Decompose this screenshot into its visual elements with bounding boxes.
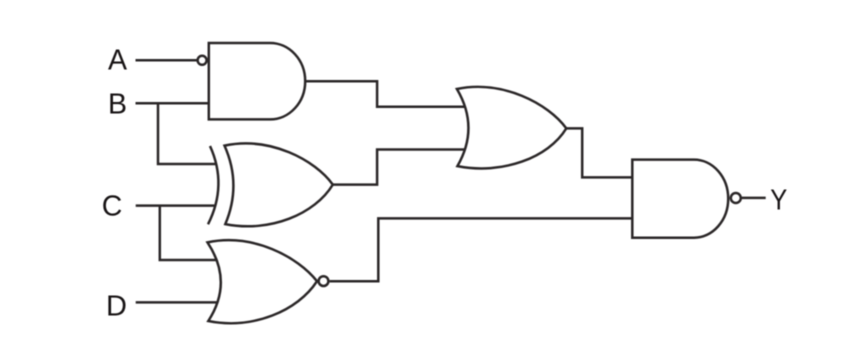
- wire U1 output to OR U4: [305, 81, 467, 107]
- NAND gate U5: [632, 160, 728, 238]
- svg-text:D: D: [106, 291, 127, 323]
- svg-text:B: B: [108, 89, 127, 121]
- XOR U2 body: [225, 143, 333, 226]
- XOR U2 input arc: [208, 146, 218, 224]
- wire C branch to NOR U3: [160, 206, 220, 260]
- OR gate U4: [457, 87, 566, 169]
- svg-text:C: C: [102, 191, 123, 223]
- NAND U5 output bubble: [731, 193, 741, 203]
- svg-text:Y: Y: [770, 184, 787, 216]
- wire A input: [136, 59, 198, 62]
- NOR U3 output bubble: [319, 276, 329, 286]
- wire U4 output to NAND U5: [566, 128, 632, 177]
- wire Y output: [742, 197, 766, 200]
- svg-text:A: A: [108, 45, 127, 77]
- NOR gate U3 body: [208, 240, 318, 323]
- wire C input to XOR U2: [136, 204, 215, 207]
- wire U2 output to OR U4: [333, 150, 468, 185]
- inverter bubble on A input of U1: [198, 56, 207, 65]
- wire B branch to XOR U2: [158, 103, 217, 164]
- wire U3 output to NAND U5: [330, 218, 633, 281]
- AND gate U1: [209, 43, 305, 119]
- wire D input: [136, 301, 219, 304]
- wire B input: [136, 102, 209, 105]
